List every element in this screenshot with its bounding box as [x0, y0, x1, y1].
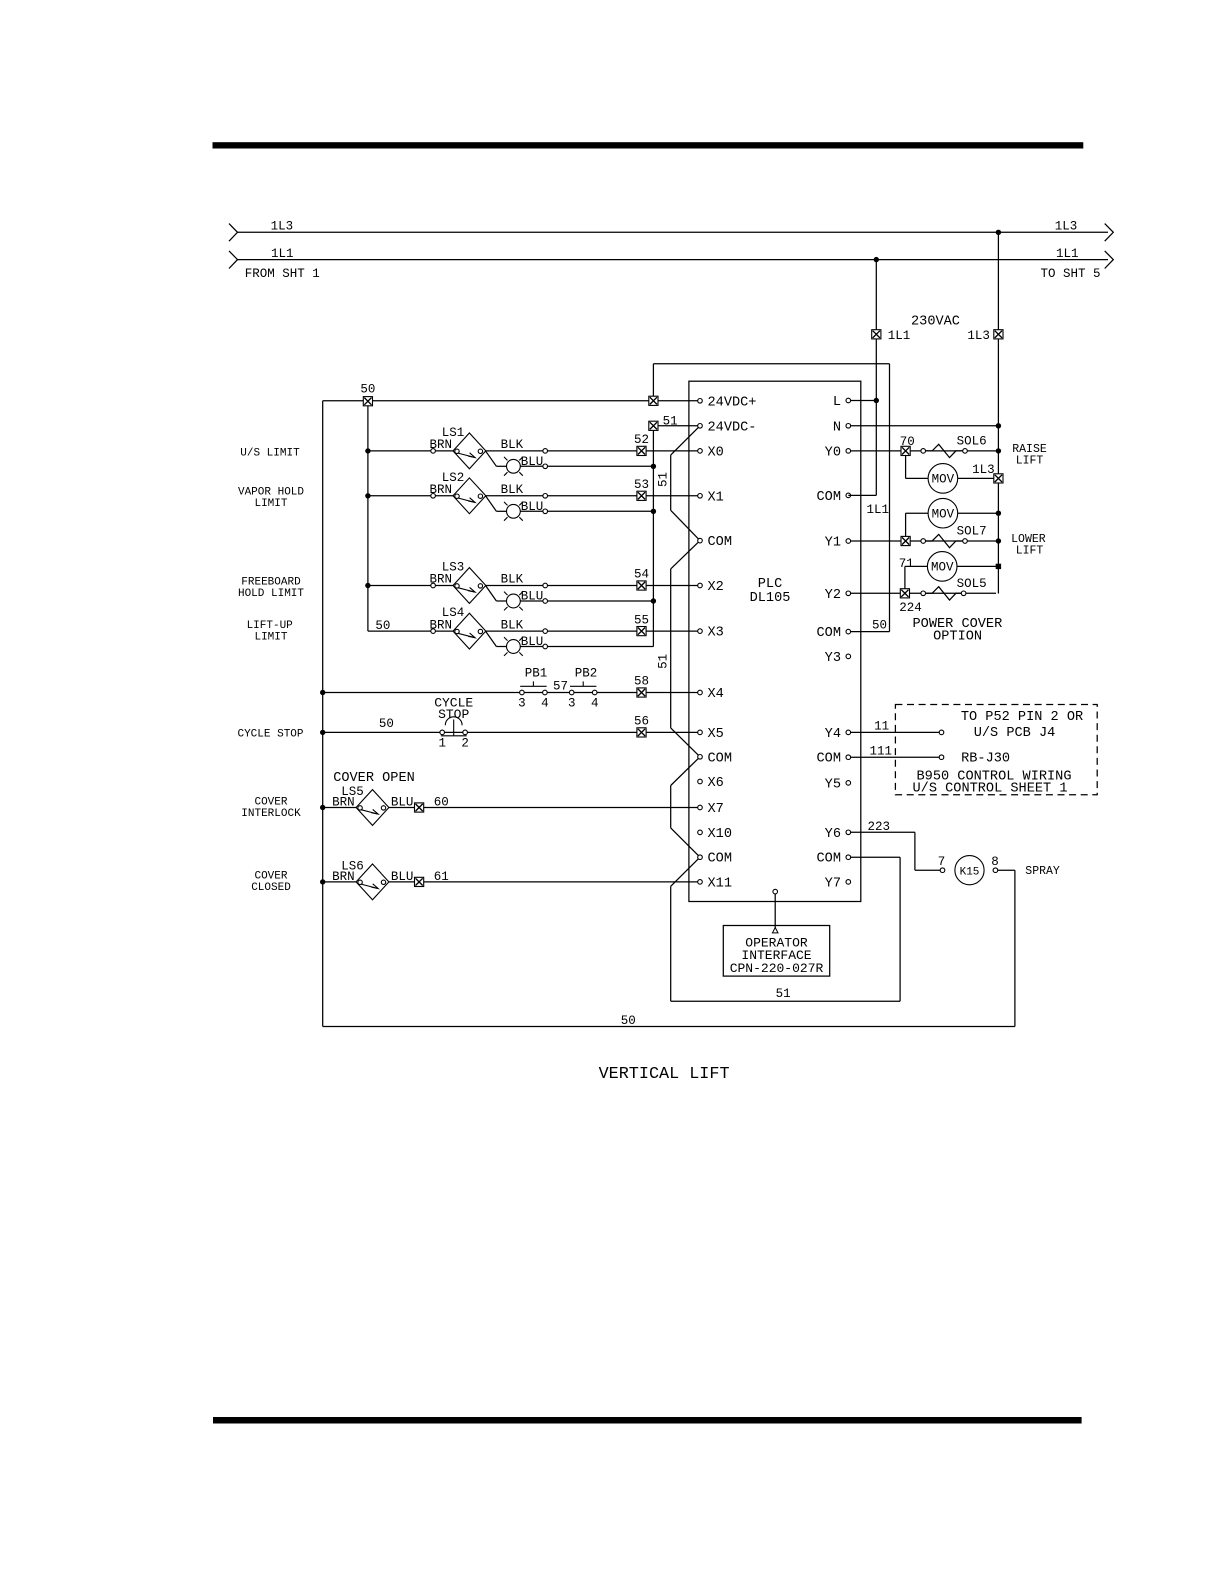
svg-text:COM: COM [817, 626, 841, 641]
junction 1L3 rail [996, 230, 1001, 235]
svg-text:Y5: Y5 [825, 777, 841, 792]
junction rail PB row [320, 690, 325, 695]
svg-text:61: 61 [434, 870, 449, 884]
wire right COM to 51 [848, 856, 900, 858]
junction 50 feeder LS1 [365, 448, 370, 453]
svg-text:COM: COM [817, 752, 841, 767]
wire X5 row [323, 731, 698, 733]
PLC right pins [846, 398, 851, 403]
svg-text:X10: X10 [708, 827, 732, 842]
junction BLU LS1 on 51 [651, 464, 656, 469]
wire 50 bottom run [323, 1026, 1015, 1028]
wire 223 Y6 [851, 831, 915, 833]
svg-text:U/S LIMIT: U/S LIMIT [240, 448, 300, 460]
terminal 52 [637, 446, 646, 455]
svg-text:Y7: Y7 [825, 876, 841, 891]
wire X2 row BLK [368, 585, 698, 587]
svg-text:PB1: PB1 [525, 667, 548, 681]
svg-text:24VDC-: 24VDC- [708, 420, 757, 435]
limit switch LS1 [453, 433, 486, 469]
pins solenoid SOL6 [921, 449, 926, 454]
wire X4 row [323, 692, 698, 694]
dashed box B950 control wiring [895, 705, 1097, 795]
wire 51 vertical d [670, 886, 672, 1001]
varistor MOV3 [927, 552, 957, 582]
svg-text:2: 2 [461, 737, 469, 751]
svg-text:BLU: BLU [521, 590, 544, 604]
wire 50 up from 24VDC+ terminal [652, 364, 654, 396]
svg-text:3: 3 [568, 697, 576, 711]
lamp LS3 [504, 592, 523, 611]
pin BLK LS4 [543, 629, 548, 634]
terminal 24VDC+ wire [649, 396, 658, 405]
svg-text:51: 51 [657, 472, 671, 487]
wire L to 1L1 [851, 400, 877, 402]
svg-text:1L1: 1L1 [867, 503, 890, 517]
pin BLK LS1 [543, 449, 548, 454]
arrow operator interface [772, 928, 778, 933]
svg-text:8: 8 [991, 855, 999, 869]
wire MOV2 lead [906, 512, 929, 514]
wire MOV1 riser [905, 455, 907, 478]
wire 51 terminal to 24VDC- pin [658, 425, 698, 427]
svg-text:X7: X7 [708, 802, 724, 817]
terminal 1L3 MOV1 [994, 474, 1003, 483]
svg-text:Y1: Y1 [825, 536, 841, 551]
terminal 61 [415, 877, 424, 886]
wire LS1 to lamp [486, 451, 497, 466]
svg-text:CYCLE STOP: CYCLE STOP [237, 729, 303, 741]
svg-text:51: 51 [657, 654, 671, 669]
wire X3 row BLK [368, 630, 698, 632]
wire 51 vertical c [670, 786, 672, 828]
svg-text:COVER: COVER [254, 871, 287, 883]
terminal 70 [901, 446, 910, 455]
svg-text:BLU: BLU [391, 796, 414, 810]
terminal 56 [637, 728, 646, 737]
junction rail LS6 [320, 879, 325, 884]
wire lamp lead LS2 [496, 510, 506, 512]
wire 1L1 drop [875, 260, 877, 496]
svg-text:BLK: BLK [501, 618, 524, 632]
junction BLU LS2 on 51 [651, 509, 656, 514]
svg-text:X1: X1 [708, 490, 724, 505]
svg-text:BLK: BLK [501, 483, 524, 497]
wire BLU LS1 to 51 [520, 465, 653, 467]
wire 51 diagonal to COM2 [671, 728, 700, 757]
svg-text:55: 55 [634, 613, 649, 627]
wire 223 drop [914, 832, 916, 870]
svg-text:111: 111 [870, 744, 893, 758]
svg-text:71: 71 [899, 557, 914, 571]
terminal 1L3 [994, 330, 1003, 339]
junction 50 feeder LS3 [365, 583, 370, 588]
svg-text:X6: X6 [708, 776, 724, 791]
wire MOV2 to 1L3 [958, 512, 996, 514]
junction rail cycle stop [320, 730, 325, 735]
wire 1L3 top rail [238, 231, 1109, 233]
svg-text:Y6: Y6 [825, 827, 841, 842]
lamp LS2 [504, 502, 523, 521]
pin BRN LS2 [431, 494, 436, 499]
bottom border bar [213, 1417, 1082, 1424]
svg-text:1L1: 1L1 [888, 329, 911, 343]
svg-text:1L3: 1L3 [972, 463, 995, 477]
svg-text:LS3: LS3 [442, 561, 465, 575]
junction 50 feeder LS2 [365, 493, 370, 498]
svg-text:COVER OPEN: COVER OPEN [333, 771, 415, 786]
svg-text:RB-J30: RB-J30 [961, 751, 1010, 766]
wire spray drop to 50 [1014, 870, 1016, 1026]
terminal 54 [637, 581, 646, 590]
svg-text:BLU: BLU [391, 870, 414, 884]
wire to K15 [915, 869, 940, 871]
terminal 51 24VDC- [649, 421, 658, 430]
wire X1 row BLK [368, 495, 698, 497]
svg-text:COM: COM [708, 751, 732, 766]
svg-text:SOL7: SOL7 [957, 525, 987, 539]
wire 51 diagonal from COM [671, 541, 700, 569]
wire 1L3 drop [997, 232, 999, 593]
limit switch LS3 [453, 568, 486, 604]
svg-text:3: 3 [518, 697, 526, 711]
limit switch LS6 [356, 864, 389, 900]
wire K15 out [998, 869, 1015, 871]
svg-text:58: 58 [634, 675, 649, 689]
limit switch LS5 [356, 790, 389, 826]
wire Y2 SOL5 row [851, 592, 996, 594]
svg-text:Y2: Y2 [825, 588, 841, 603]
svg-text:BLU: BLU [521, 455, 544, 469]
svg-text:52: 52 [634, 433, 649, 447]
wire 50 drop right of PLC [889, 364, 891, 632]
svg-text:50: 50 [872, 619, 887, 633]
pin wire 11 end [939, 730, 944, 735]
wire 51 vertical b [670, 569, 672, 728]
wire 51 diagonal from COM2 [671, 757, 700, 786]
svg-text:CLOSED: CLOSED [251, 882, 291, 894]
pin BRN LS3 [431, 583, 436, 588]
solenoid SOL5 [926, 587, 962, 600]
svg-text:COM: COM [708, 535, 732, 550]
wire 11 Y4 [851, 731, 942, 733]
svg-text:BLU: BLU [521, 635, 544, 649]
svg-text:1L3: 1L3 [1055, 220, 1078, 234]
terminal 1L1 [872, 330, 881, 339]
wire 51 vertical a [670, 455, 672, 510]
terminal SOL7 [901, 536, 910, 545]
pin BLU LS3 [543, 599, 548, 604]
svg-text:COM: COM [817, 852, 841, 867]
svg-text:1L1: 1L1 [271, 247, 294, 261]
svg-text:FREEBOARD: FREEBOARD [241, 577, 301, 589]
wire BLU LS2 to 51 [520, 510, 653, 512]
lamp LS1 [504, 457, 523, 476]
wire 50 LS feeder drop [367, 406, 369, 631]
svg-text:56: 56 [634, 715, 649, 729]
svg-text:70: 70 [900, 435, 915, 449]
pin wire 111 end [939, 755, 944, 760]
svg-text:CPN-220-027R: CPN-220-027R [730, 961, 824, 976]
wire 51 diagonal to COM [671, 510, 700, 540]
svg-text:SOL6: SOL6 [957, 435, 987, 449]
pin BLU LS2 [543, 509, 548, 514]
svg-text:L: L [833, 395, 841, 410]
varistor MOV1 [928, 464, 958, 494]
wire 51 bottom run [671, 1000, 900, 1002]
pin BRN LS4 [431, 629, 436, 634]
pin K15 7 [940, 868, 945, 873]
svg-text:224: 224 [899, 601, 922, 615]
svg-text:FROM SHT 1: FROM SHT 1 [245, 267, 320, 281]
terminal 60 [415, 803, 424, 812]
terminal 53 [637, 491, 646, 500]
wire Y1 SOL7 row [851, 540, 996, 542]
svg-text:223: 223 [868, 820, 891, 834]
wire LS2 to lamp [486, 496, 497, 511]
svg-text:LIFT: LIFT [1016, 545, 1044, 558]
svg-text:1L1: 1L1 [1056, 247, 1079, 261]
wire operator interface link [774, 894, 776, 928]
svg-text:54: 54 [634, 568, 649, 582]
arrow to-sht 1L3 [1105, 224, 1114, 242]
wire BLU LS4 to 51 [520, 646, 653, 648]
svg-text:SPRAY: SPRAY [1025, 865, 1060, 878]
svg-text:U/S CONTROL SHEET 1: U/S CONTROL SHEET 1 [913, 782, 1068, 797]
svg-text:X0: X0 [708, 445, 724, 460]
wire MOV3 lead [905, 565, 928, 567]
svg-text:50: 50 [375, 619, 390, 633]
wire 1L1 top rail [238, 259, 1109, 261]
wire MOV3 to 1L3 [957, 565, 996, 567]
wire LS3 to lamp [486, 586, 497, 601]
svg-text:LIFT-UP: LIFT-UP [247, 620, 294, 632]
svg-text:Y0: Y0 [825, 445, 841, 460]
svg-text:BLK: BLK [501, 573, 524, 587]
wire 50 over PLC top [653, 363, 889, 365]
wire 50 top run to 24VDC+ [323, 400, 698, 402]
svg-text:7: 7 [938, 855, 946, 869]
svg-text:4: 4 [591, 697, 599, 711]
junction MOV2 1L3 [996, 511, 1001, 516]
svg-text:MOV: MOV [932, 473, 955, 487]
wire MOV1 to 1L3 terminal [958, 477, 994, 479]
svg-text:4: 4 [541, 697, 549, 711]
svg-text:BLK: BLK [501, 438, 524, 452]
svg-text:MOV: MOV [931, 561, 954, 575]
svg-text:1L3: 1L3 [271, 220, 294, 234]
wire X7 row [323, 807, 698, 809]
solenoid SOL7 [926, 534, 963, 547]
relay coil K15 [955, 856, 984, 885]
svg-text:TO P52 PIN 2 OR: TO P52 PIN 2 OR [961, 710, 1083, 725]
svg-text:K15: K15 [960, 866, 980, 878]
svg-text:PLC: PLC [758, 577, 782, 592]
wire BLU LS3 to 51 [520, 600, 653, 602]
pin BLU LS1 [543, 464, 548, 469]
arrow to-sht 1L1 [1105, 251, 1114, 269]
wire 51 diagonal from 24VDC- [671, 426, 700, 455]
svg-text:50: 50 [379, 717, 394, 731]
wire N to 1L3 [851, 425, 996, 427]
arrow from-sht 1L3 [229, 224, 238, 242]
junction BLU LS3 on 51 [651, 598, 656, 603]
PLC left pins [698, 399, 703, 404]
junction L 1L1 [874, 398, 879, 403]
svg-text:PB2: PB2 [575, 667, 598, 681]
wire MOV3 riser [904, 566, 906, 588]
svg-text:BRN: BRN [332, 870, 355, 884]
junction SOL7 1L3 [996, 538, 1001, 543]
terminal 50 [363, 397, 372, 406]
lamp LS4 [504, 637, 523, 656]
svg-text:LS1: LS1 [442, 426, 465, 440]
wire X11 row [323, 881, 698, 883]
pushbutton PB2 [569, 690, 574, 695]
terminal 224 [900, 589, 909, 598]
pin BLK LS3 [543, 583, 548, 588]
pin BLK LS2 [543, 494, 548, 499]
svg-text:TO SHT 5: TO SHT 5 [1041, 267, 1101, 281]
svg-text:OPTION: OPTION [933, 630, 982, 645]
top border bar [213, 142, 1084, 148]
wire lamp lead LS3 [496, 600, 506, 602]
svg-text:U/S PCB J4: U/S PCB J4 [974, 726, 1056, 741]
wire 51 lamp-return drop [652, 430, 654, 646]
pushbutton CYCLE STOP NC [440, 730, 445, 735]
wire X0 row BLK [368, 450, 698, 452]
limit switch LS4 [453, 613, 486, 649]
svg-text:11: 11 [874, 720, 889, 734]
svg-text:51: 51 [776, 987, 791, 1001]
svg-text:60: 60 [434, 796, 449, 810]
pin K15 8 [993, 868, 998, 873]
arrow from-sht 1L1 [229, 251, 238, 269]
operator interface box [723, 926, 829, 977]
svg-text:LIMIT: LIMIT [254, 632, 287, 644]
svg-text:50: 50 [360, 383, 375, 397]
svg-text:X4: X4 [708, 687, 724, 702]
svg-text:Y4: Y4 [825, 727, 841, 742]
wire COM to 1L1 corner [848, 494, 876, 496]
svg-text:X5: X5 [708, 727, 724, 742]
svg-text:X3: X3 [708, 626, 724, 641]
pin PLC programming port [773, 889, 778, 894]
svg-text:Y3: Y3 [825, 651, 841, 666]
wire LS4 to lamp [486, 632, 497, 647]
svg-text:N: N [833, 420, 841, 435]
wire 51 diagonal from COM3 [671, 857, 700, 886]
junction N 1L3 [996, 423, 1001, 428]
svg-text:LIMIT: LIMIT [254, 498, 287, 510]
pin BLU LS4 [543, 644, 548, 649]
solenoid SOL6 [926, 444, 963, 457]
terminal 58 [637, 688, 646, 697]
svg-text:1L3: 1L3 [967, 329, 990, 343]
svg-text:50: 50 [621, 1014, 636, 1028]
wire 111 COM [851, 756, 942, 758]
pins solenoid SOL7 [921, 539, 926, 544]
svg-text:230VAC: 230VAC [911, 315, 960, 330]
pushbutton PB1 [520, 690, 525, 695]
svg-text:MOV: MOV [932, 507, 955, 521]
svg-text:INTERLOCK: INTERLOCK [241, 808, 301, 820]
svg-text:53: 53 [634, 478, 649, 492]
svg-text:VERTICAL LIFT: VERTICAL LIFT [599, 1065, 730, 1084]
junction 1L1 rail [874, 257, 879, 262]
wire lamp lead LS1 [496, 465, 506, 467]
svg-text:LS4: LS4 [442, 606, 465, 620]
limit switch LS2 [453, 478, 486, 514]
wire 51 diagonal to COM3 [671, 828, 700, 857]
op-amp PLC DL105 box [689, 381, 861, 901]
wire 50 left rail [322, 401, 324, 1027]
wire lamp lead LS4 [496, 646, 506, 648]
svg-text:BLU: BLU [521, 500, 544, 514]
wire MOV1 lead [906, 477, 929, 479]
junction rail LS5 [320, 805, 325, 810]
wire 51 up to right COM [899, 857, 901, 1001]
junction SOL6 1L3 [996, 448, 1001, 453]
svg-text:COM: COM [708, 852, 732, 867]
junction MOV3 1L3 [996, 564, 1001, 569]
varistor MOV2 [928, 498, 958, 528]
wire COM to 50 drop [848, 631, 889, 633]
svg-text:X2: X2 [708, 580, 724, 595]
svg-text:24VDC+: 24VDC+ [708, 395, 757, 410]
svg-text:1: 1 [438, 737, 446, 751]
wire Y0 SOL6 row [851, 450, 996, 452]
svg-text:COVER: COVER [254, 797, 287, 809]
pin BRN LS1 [431, 449, 436, 454]
svg-text:BRN: BRN [332, 796, 355, 810]
svg-text:COM: COM [817, 490, 841, 505]
wire MOV2 riser [905, 513, 907, 536]
svg-text:X11: X11 [708, 876, 732, 891]
pins solenoid SOL5 [921, 591, 926, 596]
svg-text:DL105: DL105 [750, 591, 791, 606]
terminal 55 [637, 627, 646, 636]
svg-text:VAPOR HOLD: VAPOR HOLD [238, 486, 304, 498]
svg-text:HOLD LIMIT: HOLD LIMIT [238, 588, 304, 600]
svg-text:57: 57 [553, 680, 568, 694]
svg-text:SOL5: SOL5 [957, 577, 987, 591]
svg-text:LS2: LS2 [442, 471, 465, 485]
svg-text:LIFT: LIFT [1016, 455, 1044, 468]
